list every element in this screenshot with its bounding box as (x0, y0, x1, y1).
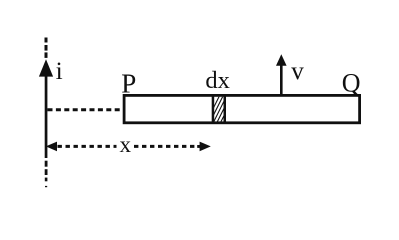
dimension line x : right arrowhead (points to element dx) (200, 142, 211, 152)
element dx: right boundary line (224, 96, 227, 123)
dimension line x : left dashed run (58, 145, 117, 148)
svg-text:v: v (291, 58, 304, 85)
wire (long straight current-carrying wire, vertical) : top dashed segment (45, 38, 48, 58)
svg-text:Q: Q (342, 68, 361, 97)
velocity arrow v : head (276, 54, 287, 65)
element dx: hatching (205, 94, 242, 124)
dimension line x : right arrowhead stub (197, 145, 200, 148)
wire bottom dashed segment (45, 161, 48, 188)
rod PQ (conducting rod, rectangle) (124, 95, 360, 122)
velocity arrow v (upward from rod) : shaft (280, 65, 283, 96)
svg-text:x: x (120, 132, 132, 157)
current arrow (arrowhead on wire, pointing up) (39, 59, 53, 76)
svg-text:dx: dx (205, 67, 230, 94)
element dx: left boundary line (212, 96, 215, 123)
dimension line x : left arrowhead (points to wire) (46, 142, 57, 152)
svg-text:i: i (56, 56, 63, 85)
wire solid segment (45, 76, 48, 158)
wire: dashed construction line from wire to end P of rod (48, 108, 124, 111)
svg-text:P: P (121, 69, 136, 99)
dimension line x : right dashed run (134, 145, 197, 148)
